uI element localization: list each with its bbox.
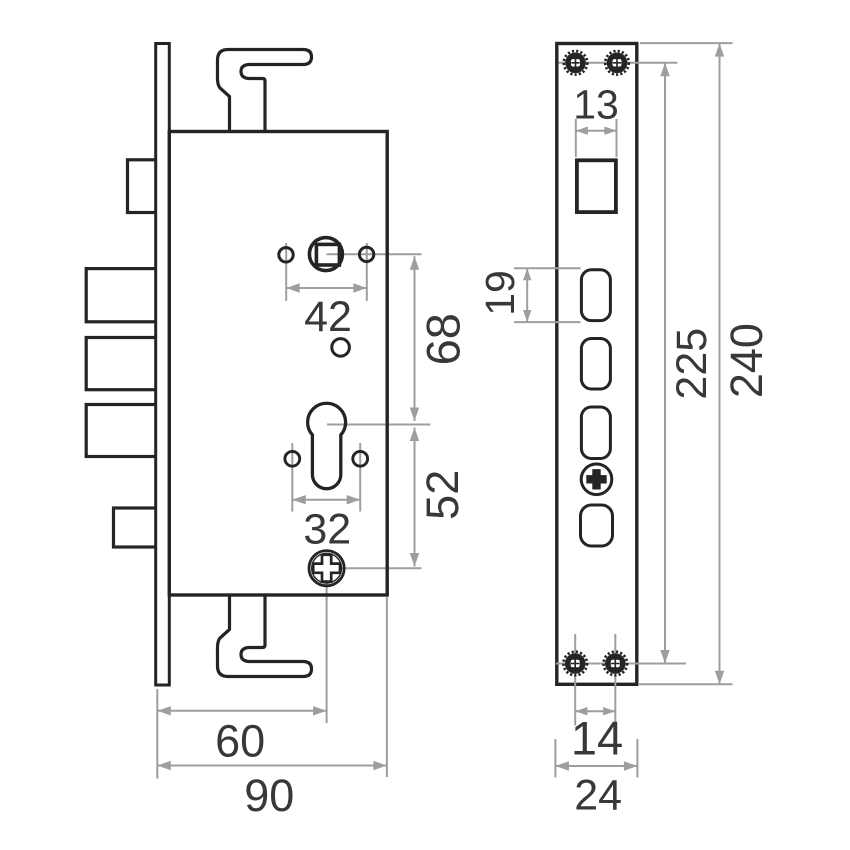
extension line 24 right	[636, 739, 638, 778]
latch block top	[128, 160, 159, 213]
dimension line 225	[664, 63, 666, 664]
svg-text:52: 52	[417, 470, 468, 520]
extension line spindle center	[327, 253, 422, 255]
fixing screw side view inner ring	[312, 553, 342, 583]
dimension line 52	[414, 428, 416, 567]
small hole below spindle	[332, 339, 350, 357]
42-dim hole right	[359, 247, 373, 261]
faceplate side view	[156, 44, 170, 686]
svg-text:90: 90	[244, 770, 294, 821]
extension line left 32-hole	[291, 443, 293, 512]
latch block bottom	[114, 508, 159, 547]
extension line 13 left	[575, 119, 577, 157]
euro cylinder keyhole	[308, 403, 346, 488]
deadbolt block 1	[86, 269, 158, 322]
dimension line 19	[526, 268, 528, 322]
extension line screw center vertical	[326, 568, 328, 723]
deadbolt block 2	[86, 338, 158, 390]
bolt slot 1	[581, 270, 610, 321]
dimension line 240	[719, 43, 721, 684]
extension line faceplate left bottom	[156, 689, 158, 779]
deadbolt block 3	[86, 405, 158, 457]
mounting screw bottom-right	[604, 652, 628, 676]
mounting screw top-left	[564, 51, 588, 75]
dimension line 42	[286, 287, 367, 289]
svg-text:19: 19	[477, 270, 523, 316]
extension line 24 left	[554, 739, 556, 778]
extension line 19 top	[514, 267, 581, 269]
extension line 13 right	[616, 119, 618, 157]
svg-text:60: 60	[215, 715, 265, 766]
svg-text:14: 14	[571, 712, 623, 765]
middle screw front view	[581, 464, 612, 495]
extension line top screws	[559, 62, 678, 64]
42-dim hole left	[279, 248, 293, 262]
32-dim hole left	[285, 451, 300, 466]
mounting screw top-right	[605, 51, 629, 75]
extension line right 32-hole	[359, 443, 361, 512]
extension line body right bottom	[386, 597, 388, 777]
extension line plate top	[640, 42, 733, 44]
extension line 19 bottom	[514, 321, 581, 323]
bolt slot 4	[581, 505, 613, 546]
svg-text:32: 32	[303, 505, 351, 553]
fixing screw side view cross	[313, 555, 340, 582]
dimension line 90	[157, 765, 387, 767]
spindle hub circle	[309, 238, 342, 271]
svg-text:13: 13	[573, 81, 619, 127]
dimension line 14	[575, 710, 615, 712]
extension line plate bottom	[638, 683, 733, 685]
fixing screw side view outer	[309, 551, 344, 586]
extension line left 42-hole	[285, 243, 287, 301]
extension line bottom screws	[556, 663, 686, 665]
extension line screw center horizontal	[327, 567, 422, 569]
32-dim hole right	[353, 451, 368, 466]
bolt slot 2	[581, 339, 610, 390]
extension line keyhole center	[327, 424, 431, 426]
top hook latch	[217, 50, 311, 131]
bottom hook latch	[217, 596, 311, 677]
lock body	[169, 132, 387, 596]
latch square hole front	[577, 160, 616, 212]
mounting screw bottom-left	[563, 652, 587, 676]
bolt slot 3	[581, 407, 610, 459]
svg-text:240: 240	[721, 323, 772, 398]
extension line 14 left	[574, 634, 576, 726]
svg-text:225: 225	[668, 328, 716, 400]
faceplate front view	[557, 44, 637, 685]
extension line right 42-hole	[366, 243, 368, 301]
dimension line 68	[414, 256, 416, 421]
dimension line 32	[292, 499, 360, 501]
dimension line 13	[576, 130, 617, 132]
extension line 14 right	[614, 634, 616, 722]
svg-text:42: 42	[304, 293, 352, 341]
svg-text:24: 24	[574, 771, 622, 819]
svg-text:68: 68	[417, 313, 470, 365]
spindle square hole	[316, 244, 339, 265]
dimension line 60	[157, 710, 326, 712]
dimension line 24	[555, 765, 637, 767]
